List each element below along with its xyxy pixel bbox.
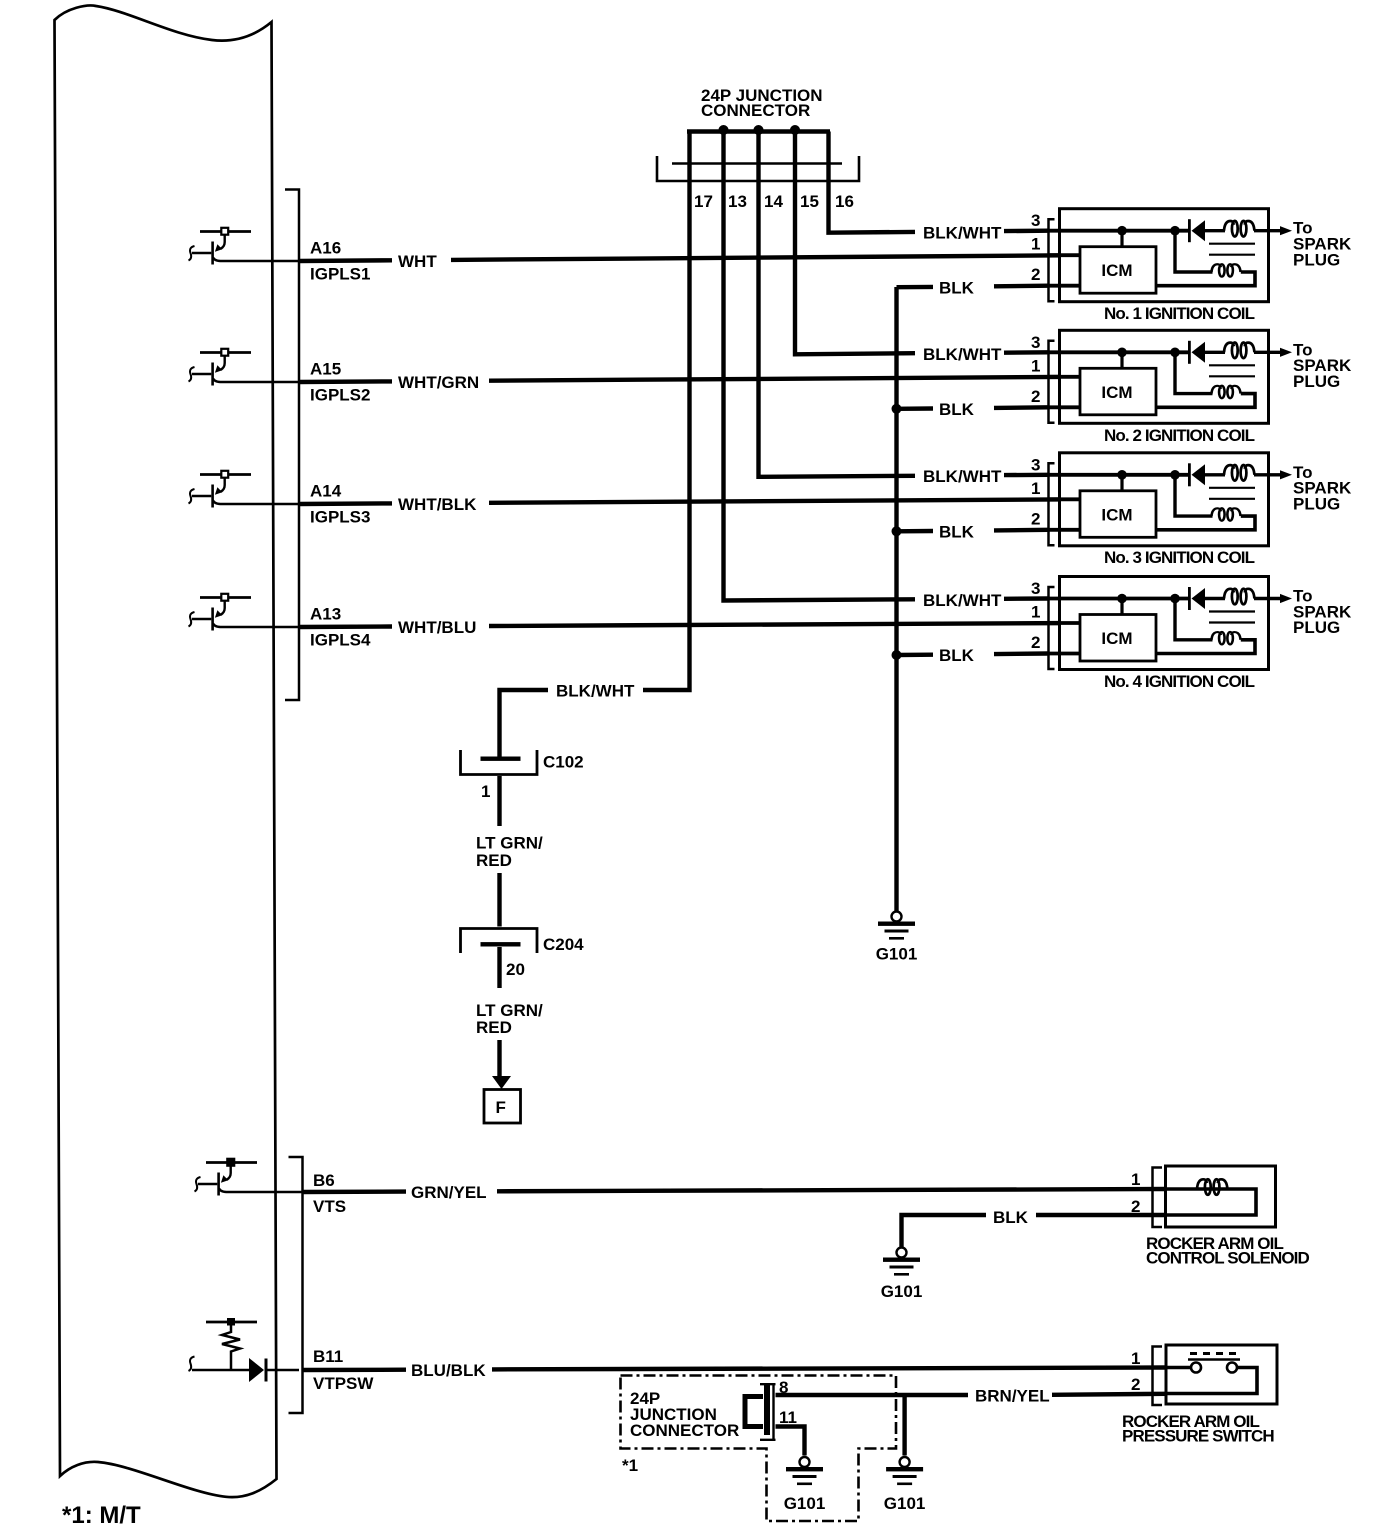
wire B11 BLU/BLK to pressure switch pin 1 xyxy=(303,1367,407,1372)
svg-text:BLK: BLK xyxy=(993,1208,1029,1227)
solenoid winding L1 xyxy=(1166,1189,1256,1215)
transistor Q5 (VTS driver) xyxy=(195,1159,306,1196)
pressure switch contacts xyxy=(1166,1366,1191,1370)
svg-text:IGPLS2: IGPLS2 xyxy=(310,386,370,405)
svg-text:CONTROL SOLENOID: CONTROL SOLENOID xyxy=(1146,1249,1309,1268)
svg-text:RED: RED xyxy=(476,1018,512,1037)
svg-text:15: 15 xyxy=(800,192,819,211)
bottom junction connector symbol xyxy=(745,1397,763,1427)
svg-text:PRESSURE SWITCH: PRESSURE SWITCH xyxy=(1122,1427,1274,1446)
diode D1 into VTPSW input xyxy=(192,1369,249,1372)
svg-text:17: 17 xyxy=(694,192,713,211)
wire pin 11 to G101 xyxy=(776,1427,805,1456)
ignition coil No.1 (ICM, diode, windings) xyxy=(1031,209,1352,302)
transistor Q4 (IGPLS4 driver) xyxy=(189,594,300,631)
wire pin16 vertical to No.1 coil BLK/WHT xyxy=(829,132,916,233)
svg-text:WHT/BLU: WHT/BLU xyxy=(398,618,476,637)
svg-text:BLK: BLK xyxy=(939,400,975,419)
arrow to F xyxy=(492,1076,511,1089)
svg-text:16: 16 xyxy=(835,192,854,211)
svg-text:WHT/BLK: WHT/BLK xyxy=(398,495,477,514)
svg-text:VTS: VTS xyxy=(313,1197,346,1216)
svg-text:A15: A15 xyxy=(310,360,341,379)
connector C102 xyxy=(461,750,538,775)
svg-text:GRN/YEL: GRN/YEL xyxy=(411,1183,487,1202)
svg-text:BLK: BLK xyxy=(939,522,975,541)
svg-text:G101: G101 xyxy=(876,945,918,964)
svg-text:*1: M/T: *1: M/T xyxy=(62,1502,141,1529)
24P junction connector bus bar xyxy=(687,129,830,134)
svg-text:VTPSW: VTPSW xyxy=(313,1374,374,1393)
wire pin15 vertical to No.2 coil BLK/WHT xyxy=(795,132,915,355)
svg-text:A16: A16 xyxy=(310,239,341,258)
svg-text:2: 2 xyxy=(1131,1197,1140,1216)
svg-text:BLK/WHT: BLK/WHT xyxy=(556,682,635,701)
svg-text:IGPLS4: IGPLS4 xyxy=(310,631,371,650)
B11 input hook xyxy=(189,1357,195,1372)
connector body tray xyxy=(657,156,859,181)
svg-text:2: 2 xyxy=(1131,1375,1140,1394)
junction dot + wire No.2 coil pin2 BLK xyxy=(892,404,902,414)
svg-text:LT GRN/: LT GRN/ xyxy=(476,834,543,853)
B11 input: pull-up resistor R1 xyxy=(206,1321,257,1324)
transistor Q3 (IGPLS3 driver) xyxy=(189,471,300,508)
svg-text:BLK/WHT: BLK/WHT xyxy=(923,345,1002,364)
svg-text:1: 1 xyxy=(1131,1170,1140,1189)
ignition coil No.3 xyxy=(1031,453,1352,546)
svg-text:IGPLS1: IGPLS1 xyxy=(310,265,370,284)
node F box xyxy=(484,1090,521,1124)
svg-text:14: 14 xyxy=(764,192,783,211)
svg-text:BLK/WHT: BLK/WHT xyxy=(923,591,1002,610)
svg-text:WHT: WHT xyxy=(398,252,437,271)
svg-text:IGPLS3: IGPLS3 xyxy=(310,508,370,527)
svg-text:1: 1 xyxy=(1131,1349,1140,1368)
svg-text:BRN/YEL: BRN/YEL xyxy=(975,1387,1050,1406)
svg-text:G101: G101 xyxy=(881,1282,923,1301)
svg-text:No. 2 IGNITION COIL: No. 2 IGNITION COIL xyxy=(1104,426,1255,445)
svg-text:No. 1 IGNITION COIL: No. 1 IGNITION COIL xyxy=(1104,304,1255,323)
rocker arm oil control solenoid box xyxy=(1166,1166,1276,1227)
ignition coil No.2 xyxy=(1031,330,1352,423)
wire pin13 vertical to No.4 coil BLK/WHT xyxy=(724,132,916,601)
svg-text:RED: RED xyxy=(476,851,512,870)
24P junction connector (bottom) dash-dot outline xyxy=(621,1376,897,1522)
ECM connector body outline (torn-page shape) xyxy=(55,6,277,1498)
ground G101 (solenoid) xyxy=(883,1248,920,1276)
svg-text:G101: G101 xyxy=(784,1494,826,1513)
svg-text:C102: C102 xyxy=(543,753,584,772)
svg-text:No. 3 IGNITION COIL: No. 3 IGNITION COIL xyxy=(1104,548,1255,567)
ground G101 (junction connector) xyxy=(786,1457,823,1485)
wire A14 WHT/BLK to No.3 coil pin 1 xyxy=(299,501,392,506)
connector bracket (B6-B11 group) xyxy=(289,1157,303,1413)
wire pin14 vertical to No.3 coil BLK/WHT xyxy=(759,132,916,477)
svg-text:CONNECTOR: CONNECTOR xyxy=(630,1421,739,1440)
rocker arm oil control solenoid bracket xyxy=(1153,1168,1163,1228)
connector C204 (cup opens down) xyxy=(461,929,538,954)
svg-text:BLK/WHT: BLK/WHT xyxy=(923,223,1002,242)
transistor Q1 (IGPLS1 driver) xyxy=(189,228,300,265)
junction dot on bus (pin 15) xyxy=(790,125,800,135)
rocker arm oil pressure switch bracket xyxy=(1153,1347,1163,1406)
svg-text:C204: C204 xyxy=(543,935,584,954)
wire LT GRN/RED (C102 to C204) xyxy=(497,776,501,826)
svg-text:B11: B11 xyxy=(313,1347,343,1366)
wire B6 GRN/YEL to solenoid pin 1 xyxy=(303,1189,407,1194)
svg-text:*1: *1 xyxy=(622,1456,638,1475)
rocker arm oil pressure switch box xyxy=(1166,1345,1277,1404)
svg-text:A14: A14 xyxy=(310,482,342,501)
svg-text:A13: A13 xyxy=(310,605,341,624)
wire LT GRN/RED (C204 to F) xyxy=(497,947,501,988)
junction dot on bus (pin 13) xyxy=(719,125,729,135)
junction dot on bus (pin 14) xyxy=(754,125,764,135)
wire BLK solenoid pin2 to G101 xyxy=(1036,1213,1166,1217)
svg-text:BLU/BLK: BLU/BLK xyxy=(411,1361,486,1380)
svg-text:B6: B6 xyxy=(313,1171,335,1190)
junction dot + wire No.3 coil pin2 BLK xyxy=(892,526,902,536)
wire A16 WHT to No.1 coil pin 1 xyxy=(299,258,392,263)
svg-text:BLK: BLK xyxy=(939,278,975,297)
svg-text:WHT/GRN: WHT/GRN xyxy=(398,373,479,392)
svg-text:F: F xyxy=(496,1098,506,1117)
svg-text:CONNECTOR: CONNECTOR xyxy=(701,101,810,120)
BLK ground bus vertical to G101 xyxy=(894,287,898,911)
svg-text:13: 13 xyxy=(728,192,747,211)
svg-text:No. 4 IGNITION COIL: No. 4 IGNITION COIL xyxy=(1104,672,1255,691)
wire No.1 coil pin2 BLK xyxy=(897,285,934,290)
wire pin 8 BRN/YEL to pressure switch pin 2 xyxy=(776,1393,969,1397)
svg-text:11: 11 xyxy=(779,1408,797,1427)
wire BRN/YEL branch to G101 xyxy=(902,1395,906,1456)
junction dot + wire No.4 coil pin2 BLK xyxy=(892,650,902,660)
svg-text:BLK/WHT: BLK/WHT xyxy=(923,467,1002,486)
ignition coil No.4 xyxy=(1031,577,1352,670)
svg-text:G101: G101 xyxy=(884,1494,926,1513)
ground G101 (ignition coils) xyxy=(878,912,915,940)
transistor Q2 (IGPLS2 driver) xyxy=(189,349,300,386)
svg-text:BLK: BLK xyxy=(939,646,975,665)
ground G101 (pressure switch) xyxy=(886,1457,923,1485)
svg-text:1: 1 xyxy=(481,782,490,801)
svg-text:20: 20 xyxy=(506,960,525,979)
wire A15 WHT/GRN to No.2 coil pin 1 xyxy=(299,379,392,384)
wire A13 WHT/BLU to No.4 coil pin 1 xyxy=(299,624,392,629)
wire pin17 vertical to BLK/WHT C102 branch xyxy=(643,132,690,691)
connector bracket (A16-A13 group) xyxy=(285,190,299,701)
